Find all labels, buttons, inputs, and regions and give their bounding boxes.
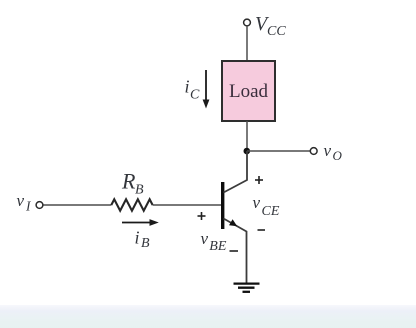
svg-text:CE: CE xyxy=(262,204,280,219)
emitter lead xyxy=(224,219,247,284)
svg-text:I: I xyxy=(25,199,32,214)
label iB xyxy=(135,228,151,251)
label VCC xyxy=(255,13,286,39)
wire VCC to Load xyxy=(246,26,248,61)
resistor RB xyxy=(111,199,152,210)
svg-text:O: O xyxy=(333,148,343,163)
label + (vCE) xyxy=(255,176,263,184)
svg-text:Load: Load xyxy=(229,81,269,102)
label vO xyxy=(324,141,343,163)
label vI xyxy=(17,191,33,214)
svg-text:R: R xyxy=(121,169,136,194)
ground xyxy=(234,284,260,292)
label + (vBE) xyxy=(198,212,206,220)
svg-text:B: B xyxy=(135,183,144,198)
transistor Q1 (NPN) xyxy=(223,151,247,284)
svg-text:v: v xyxy=(253,193,261,212)
current arrow iC xyxy=(203,70,210,109)
svg-text:CC: CC xyxy=(267,24,286,39)
svg-text:B: B xyxy=(141,236,150,251)
terminal vI xyxy=(36,202,43,209)
svg-text:v: v xyxy=(324,141,332,160)
svg-text:i: i xyxy=(135,228,140,248)
label RB xyxy=(121,169,144,198)
wire Load to node xyxy=(246,121,248,151)
wire vI to resistor RB xyxy=(44,204,112,206)
node junction xyxy=(244,148,251,155)
terminal VCC xyxy=(244,19,251,26)
label vBE xyxy=(201,229,227,254)
svg-text:v: v xyxy=(17,191,25,210)
label minus (vBE) xyxy=(230,250,239,252)
wire node to vO xyxy=(247,150,310,152)
terminal vO xyxy=(310,148,317,155)
label vCE xyxy=(253,193,280,219)
svg-text:C: C xyxy=(190,88,200,103)
label iC xyxy=(185,77,201,103)
emitter arrowhead xyxy=(229,219,237,226)
label minus (vCE) xyxy=(258,229,266,231)
wire resistor RB to base xyxy=(153,204,221,206)
base bar xyxy=(221,182,224,229)
svg-text:BE: BE xyxy=(209,239,227,254)
svg-text:i: i xyxy=(185,77,190,97)
load block xyxy=(222,61,275,121)
svg-text:v: v xyxy=(201,229,209,248)
collector lead xyxy=(224,151,248,193)
current arrow iB xyxy=(122,219,159,226)
